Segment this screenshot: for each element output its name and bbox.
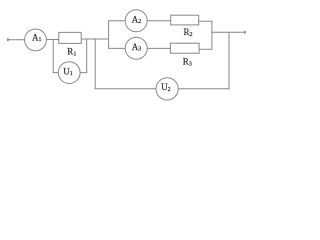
wire output <box>212 31 245 33</box>
wire node to bottom rail <box>94 39 96 89</box>
svg-text:U1: U1 <box>63 66 73 77</box>
svg-text:A1: A1 <box>32 32 42 43</box>
svg-text:U2: U2 <box>161 82 171 93</box>
wire drop to bottom rail <box>228 32 230 89</box>
wire bottom rail right <box>178 88 229 90</box>
svg-text:R3: R3 <box>183 57 192 68</box>
resistor R2 <box>171 15 199 25</box>
wire R1 to node <box>81 38 108 40</box>
wire bus to A2 <box>108 20 125 22</box>
wire R3 to right bus <box>199 48 212 50</box>
svg-text:A3: A3 <box>132 42 142 53</box>
ammeter A1 <box>25 29 47 51</box>
wire A3 to R3 <box>147 47 170 49</box>
wire U1 left leg <box>53 40 58 73</box>
wire A1 to R1 <box>46 39 58 41</box>
wire R2 to right bus <box>199 20 213 22</box>
ammeter A3 <box>125 37 147 59</box>
wire right bus <box>211 21 213 49</box>
svg-text:R1: R1 <box>67 47 76 58</box>
wire bottom rail left <box>95 88 156 90</box>
wire left bus <box>108 21 110 49</box>
svg-text:A2: A2 <box>132 14 142 25</box>
resistor R1 <box>59 32 81 43</box>
input terminal <box>7 38 9 41</box>
wire input to A1 <box>8 39 25 41</box>
ammeter A2 <box>125 10 147 32</box>
wire U1 right leg <box>80 39 87 73</box>
resistor R3 <box>170 43 199 53</box>
wire A2 to R2 <box>147 20 171 22</box>
output terminal <box>244 31 246 34</box>
voltmeter U2 <box>156 78 178 100</box>
wire bus to A3 <box>108 47 125 49</box>
svg-text:R2: R2 <box>184 27 193 38</box>
voltmeter U1 <box>58 62 80 84</box>
